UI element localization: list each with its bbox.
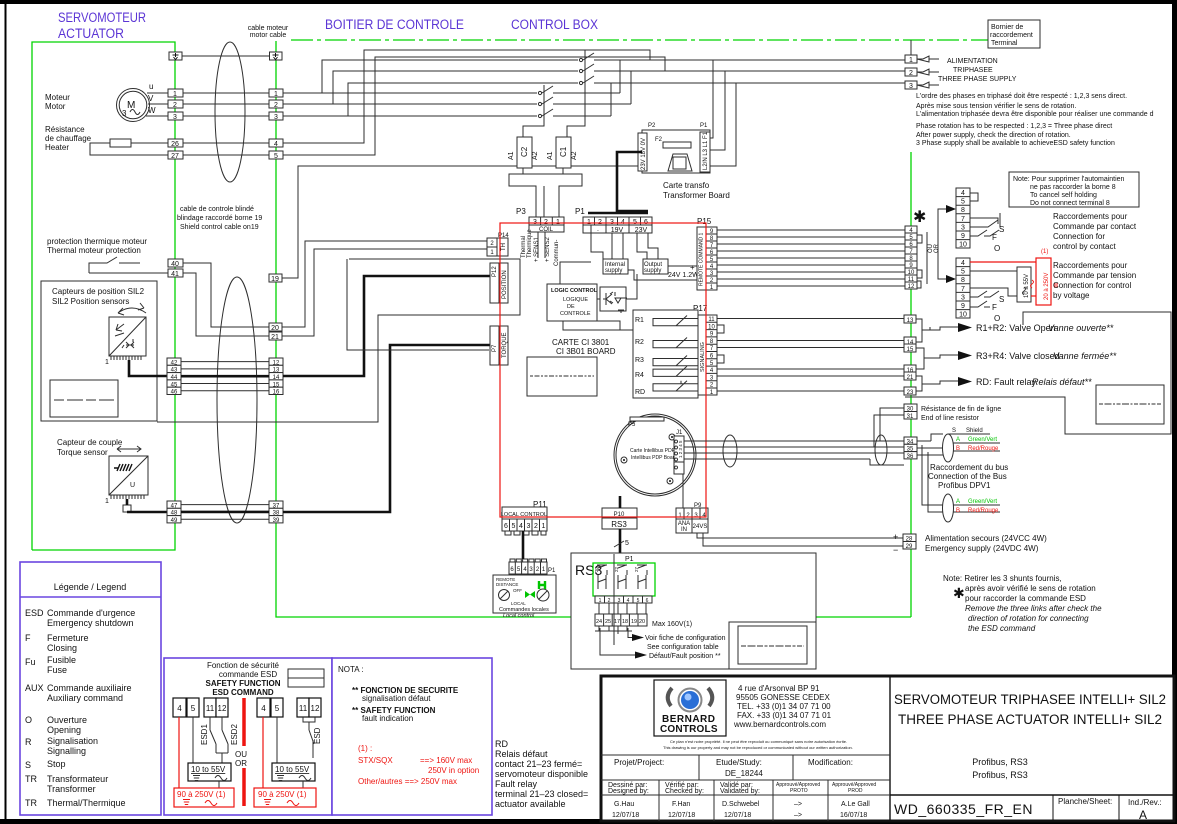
svg-text:1: 1	[274, 91, 278, 98]
svg-text:23V 18V 0V: 23V 18V 0V	[641, 138, 647, 170]
svg-text:Shield control cable on19: Shield control cable on19	[180, 224, 259, 231]
terminal bracket 13-14	[916, 319, 922, 342]
svg-text:Motor: Motor	[45, 102, 66, 111]
fault common wire	[613, 554, 615, 645]
svg-text:21: 21	[271, 334, 279, 341]
svg-text:26: 26	[171, 141, 179, 148]
svg-text:motor cable: motor cable	[250, 32, 287, 39]
internal supply	[603, 259, 628, 274]
svg-text:STX/SQX: STX/SQX	[358, 756, 393, 765]
svg-text:R3: R3	[635, 357, 644, 364]
svg-text:LOGIC CONTROL: LOGIC CONTROL	[551, 288, 598, 294]
terminals 34-36	[904, 437, 917, 444]
wire relays feed	[597, 321, 633, 330]
variant 1 wire 5	[192, 717, 194, 763]
svg-text:5: 5	[512, 523, 516, 530]
svg-text:A: A	[956, 499, 960, 505]
svg-text:22: 22	[614, 566, 619, 572]
terminal 16	[904, 365, 916, 373]
svg-text:41: 41	[171, 271, 179, 278]
svg-text:Transformer: Transformer	[47, 784, 96, 794]
wire torque thick to P7	[283, 345, 490, 512]
svg-text:13: 13	[907, 318, 914, 324]
svg-text:11: 11	[299, 704, 308, 713]
control box dash-dot boundary	[291, 39, 988, 41]
svg-text:2: 2	[909, 70, 913, 77]
opto coupler	[600, 287, 627, 313]
svg-text:Designed by:: Designed by:	[608, 788, 649, 795]
OU OR divider red	[242, 698, 246, 746]
svg-text:2: 2	[534, 523, 538, 530]
wire phase3 to C1 pole	[348, 115, 537, 117]
terminal strip column 1 motor	[168, 89, 183, 160]
position sensor block	[105, 317, 146, 366]
terminal 41	[168, 269, 183, 277]
svg-text:.: .	[597, 226, 599, 233]
terminals 47-49	[167, 501, 181, 524]
wire motor W	[146, 115, 168, 117]
svg-text:après avoir vérifié le sens de: après avoir vérifié le sens de rotation	[965, 584, 1096, 593]
project table	[601, 755, 890, 780]
svg-text:Heater: Heater	[45, 143, 69, 152]
svg-text:P15: P15	[697, 217, 712, 226]
svg-text:Thermal moteur protection: Thermal moteur protection	[47, 246, 141, 255]
svg-text:LOGIQUE: LOGIQUE	[563, 297, 588, 303]
svg-text:P1: P1	[700, 123, 708, 129]
svg-text:Fonction de sécurité: Fonction de sécurité	[207, 661, 280, 670]
svg-text:Résistance de fin de ligne: Résistance de fin de ligne	[921, 406, 1001, 413]
svg-text:+: +	[690, 263, 695, 272]
svg-text:1: 1	[542, 523, 546, 530]
variant 1 supply box	[188, 763, 231, 781]
green vertical at terminal strip	[910, 152, 912, 617]
shield terminal right	[270, 52, 283, 60]
svg-text:(1): (1)	[1041, 249, 1048, 255]
OU OR bracket	[926, 232, 928, 284]
svg-text:Intellibus PDP Board: Intellibus PDP Board	[631, 455, 677, 461]
svg-text:29: 29	[906, 544, 913, 550]
svg-text:Opening: Opening	[47, 725, 81, 735]
connector P9	[676, 503, 708, 533]
terminal 15	[904, 344, 916, 352]
svg-text:RD: RD	[495, 739, 508, 749]
svg-text:Stop: Stop	[47, 759, 66, 769]
connector P7 TORQUE	[490, 326, 508, 365]
svg-text:20: 20	[271, 325, 279, 332]
contact command block	[956, 188, 1004, 253]
svg-text:Note: Pour supprimer l'automai: Note: Pour supprimer l'automaintien	[1013, 176, 1125, 183]
svg-text:L'ordre des phases en triphasé: L'ordre des phases en triphasé doit être…	[916, 93, 1127, 100]
svg-text:commande ESD: commande ESD	[219, 670, 277, 679]
svg-text:TH: TH	[501, 243, 507, 251]
terminal 13	[904, 315, 916, 323]
wire sensor common to P7	[347, 259, 489, 350]
svg-text:Commande par contact: Commande par contact	[1053, 222, 1137, 231]
svg-text:27: 27	[634, 566, 639, 572]
svg-text:2: 2	[173, 102, 177, 109]
RS3 relays	[594, 565, 647, 589]
svg-text:Projet/Project:: Projet/Project:	[614, 758, 664, 767]
svg-text:3: 3	[961, 224, 965, 231]
dashed note box	[1096, 385, 1164, 424]
svg-text:Connection for: Connection for	[1053, 232, 1105, 241]
svg-text:24V 1.2W: 24V 1.2W	[668, 272, 699, 279]
svg-text:39: 39	[273, 518, 280, 524]
svg-text:(1) :: (1) :	[358, 744, 372, 753]
shield group 2	[922, 445, 1000, 522]
wire shield link	[182, 55, 270, 57]
svg-text:Green/Vert: Green/Vert	[968, 499, 997, 505]
terminal 40	[168, 259, 183, 267]
svg-text:A.Le Gall: A.Le Gall	[841, 801, 870, 808]
svg-text:Emergency shutdown: Emergency shutdown	[47, 618, 134, 628]
svg-text:12: 12	[908, 284, 915, 290]
svg-text:THREE PHASE ACTUATOR INTELL: THREE PHASE ACTUATOR INTELLI+ SIL2	[898, 712, 1162, 727]
svg-text:ALIMENTATION: ALIMENTATION	[947, 58, 998, 65]
svg-text:cable de controle blindé: cable de controle blindé	[180, 206, 254, 213]
svg-text:20 à 250V: 20 à 250V	[1044, 273, 1050, 300]
thermal switch	[89, 257, 140, 273]
variant 2 red wires	[262, 717, 264, 788]
svg-text:P5: P5	[628, 422, 636, 428]
RS3 wires pins to terminals	[599, 603, 646, 634]
wire heater	[90, 143, 168, 155]
svg-text:11: 11	[708, 317, 715, 323]
svg-text:W: W	[148, 106, 156, 115]
svg-text:ESD: ESD	[313, 727, 322, 744]
svg-text:9: 9	[961, 233, 965, 240]
svg-text:actuator available: actuator available	[495, 799, 566, 809]
svg-text:SERVOMOTEUR: SERVOMOTEUR	[58, 10, 146, 25]
logic control block	[547, 284, 598, 321]
voltage red wire	[970, 261, 1036, 263]
sensor output wire thick	[129, 360, 168, 376]
wire to C1 coil	[567, 50, 585, 137]
coil return wires	[509, 168, 536, 217]
svg-text:Do not connect terminal 8: Do not connect terminal 8	[1030, 200, 1110, 207]
svg-text:R4: R4	[635, 372, 644, 379]
wire 20 to P14	[282, 241, 487, 327]
svg-text:27: 27	[171, 153, 179, 160]
svg-text:−: −	[893, 545, 898, 555]
svg-text:3 Phase supply shall be availa: 3 Phase supply shall be available to ach…	[916, 140, 1115, 147]
svg-text:12/07/18: 12/07/18	[612, 812, 639, 819]
svg-text:25: 25	[605, 619, 611, 625]
svg-text:4: 4	[961, 260, 965, 267]
svg-text:SERVOMOTEUR TRIPHASEE INTELL: SERVOMOTEUR TRIPHASEE INTELLI+ SIL2	[894, 692, 1166, 707]
phase crossover wires	[610, 83, 612, 116]
svg-text:THREE PHASE SUPPLY: THREE PHASE SUPPLY	[938, 76, 1017, 83]
svg-text:Raccordements pour: Raccordements pour	[1053, 212, 1128, 221]
svg-text:contact 21–23 fermé=: contact 21–23 fermé=	[495, 759, 582, 769]
svg-text:Connection for control: Connection for control	[1053, 281, 1131, 290]
svg-text:4: 4	[177, 704, 182, 713]
emergency supply wires	[697, 533, 903, 538]
connector P15	[697, 217, 717, 291]
svg-text:Résistance: Résistance	[45, 125, 85, 134]
svg-text:Capteurs de position SIL2: Capteurs de position SIL2	[52, 287, 145, 296]
svg-text:10 à 55V: 10 à 55V	[1024, 274, 1030, 298]
svg-text:Profibus DPV1: Profibus DPV1	[938, 481, 991, 490]
svg-text:Emergency supply (24VDC 4W): Emergency supply (24VDC 4W)	[925, 544, 1039, 553]
terminal 19	[269, 274, 282, 282]
svg-text:S: S	[999, 225, 1004, 234]
svg-text:49: 49	[171, 518, 178, 524]
supply arrows	[917, 56, 939, 62]
svg-text:5: 5	[274, 153, 278, 160]
svg-text:11: 11	[908, 277, 915, 283]
svg-text:Red/Rouge: Red/Rouge	[968, 446, 999, 452]
svg-text:This drawing is our property a: This drawing is our property and may not…	[663, 745, 853, 750]
shunt note	[943, 574, 1102, 633]
svg-text:P1: P1	[625, 556, 634, 563]
terminal 14	[904, 337, 916, 345]
svg-text:signalisation défaut: signalisation défaut	[362, 694, 431, 703]
wire motor U	[147, 92, 168, 94]
svg-text:REMOTE COMMAND 1: REMOTE COMMAND 1	[699, 232, 705, 286]
RS3 outer box	[571, 553, 816, 669]
svg-text:CONTROL BOX: CONTROL BOX	[511, 17, 598, 32]
svg-text:TEL. +33 (0)1 34 07 71 00: TEL. +33 (0)1 34 07 71 00	[737, 702, 831, 711]
spare box	[50, 380, 118, 417]
wires heater cable	[183, 142, 269, 144]
terminal 1 supply	[905, 55, 917, 63]
wires 30 31	[880, 408, 904, 441]
svg-text:SIGNALING: SIGNALING	[700, 342, 706, 372]
terminal bracket 21-23	[916, 376, 922, 391]
svg-text:1: 1	[105, 498, 109, 505]
svg-text:D.Schwebel: D.Schwebel	[722, 801, 760, 808]
RD annotation	[922, 377, 1092, 387]
wires torque cable	[181, 504, 269, 506]
wire phase2 to C1 pole	[333, 103, 537, 105]
svg-text:Relais défaut**: Relais défaut**	[1032, 377, 1092, 387]
wire heater supply 5	[283, 57, 665, 155]
svg-text:7: 7	[961, 216, 965, 223]
svg-text:Fu: Fu	[25, 657, 36, 667]
svg-text:G.Hau: G.Hau	[614, 801, 634, 808]
svg-text:==> 160V max: ==> 160V max	[420, 756, 472, 765]
svg-text:P3: P3	[516, 207, 526, 216]
svg-text:10: 10	[959, 312, 967, 319]
svg-text:Max 160V(1): Max 160V(1)	[652, 621, 692, 628]
wire logic to opto	[597, 298, 600, 300]
contactor C2	[508, 137, 539, 168]
svg-text:10: 10	[908, 270, 915, 276]
svg-text:pour raccorder la commande ESD: pour raccorder la commande ESD	[965, 594, 1086, 603]
variant 2 wire 5	[276, 717, 278, 763]
svg-text:1 2 3 4 5: 1 2 3 4 5	[678, 440, 683, 458]
wire P11 to local	[522, 531, 525, 559]
svg-text:4: 4	[519, 523, 523, 530]
svg-text:10: 10	[959, 242, 967, 249]
svg-text:Commun-: Commun-	[554, 240, 560, 266]
svg-text:End of line resistor: End of line resistor	[921, 415, 980, 422]
svg-text:A: A	[1139, 808, 1147, 822]
svg-text:Vanne ouverte**: Vanne ouverte**	[1048, 323, 1114, 333]
heater resistor	[110, 139, 131, 147]
svg-text:24VS: 24VS	[693, 524, 708, 530]
arc arrow	[118, 303, 146, 315]
RS3 pin row	[595, 596, 652, 604]
svg-text:RD: Fault relay: RD: Fault relay	[976, 377, 1037, 387]
svg-text:RD: RD	[635, 389, 645, 396]
svg-text:Fuse: Fuse	[47, 665, 67, 675]
svg-text:36: 36	[907, 454, 914, 460]
svg-text:Commande par tension: Commande par tension	[1053, 271, 1136, 280]
terminal 21b	[904, 372, 916, 380]
connector P11	[501, 500, 547, 535]
svg-text:Signalling: Signalling	[47, 746, 86, 756]
svg-text:POSITION: POSITION	[502, 270, 508, 299]
wire P5 to P10	[619, 496, 622, 508]
SECTION: top power wiring	[283, 20, 1154, 217]
svg-text:4: 4	[261, 704, 266, 713]
svg-text:2: 2	[274, 102, 278, 109]
svg-text:L2/N L3 L1 F1: L2/N L3 L1 F1	[703, 131, 709, 170]
svg-text:18: 18	[622, 619, 628, 625]
svg-text:Fault relay: Fault relay	[495, 779, 538, 789]
svg-text:BOITIER DE CONTROLE: BOITIER DE CONTROLE	[325, 17, 464, 32]
svg-text:31: 31	[907, 414, 914, 420]
svg-text:NOTA :: NOTA :	[338, 665, 364, 674]
svg-text:CI 3B01 BOARD: CI 3B01 BOARD	[556, 347, 616, 356]
terminal strip column 2 motor	[269, 89, 283, 160]
svg-text:46: 46	[171, 390, 178, 396]
svg-text:DE: DE	[567, 304, 575, 310]
svg-text:ESD COMMAND: ESD COMMAND	[212, 688, 274, 697]
svg-text:Local control: Local control	[503, 613, 535, 619]
svg-text:After power supply, check the: After power supply, check the direction …	[916, 132, 1071, 139]
terminals 37-39	[269, 501, 283, 524]
svg-text:8: 8	[961, 277, 965, 284]
motor M1	[117, 89, 150, 122]
svg-text:+ SENS2: + SENS2	[545, 236, 551, 262]
svg-text:ESD: ESD	[25, 608, 44, 618]
connector P14	[487, 233, 509, 256]
svg-text:CARTE CI 3801: CARTE CI 3801	[552, 338, 610, 347]
bus cable ellipse 2	[875, 435, 887, 465]
terminals 4-12	[905, 226, 917, 290]
svg-text:Signalisation: Signalisation	[47, 736, 98, 746]
svg-text:O: O	[25, 715, 32, 725]
svg-text:DISTANCE: DISTANCE	[496, 582, 518, 587]
svg-text:✱: ✱	[953, 585, 965, 601]
svg-text:Validated by:: Validated by:	[720, 788, 760, 795]
10 a 55V box	[1017, 267, 1031, 302]
SECTION: control board	[487, 207, 940, 535]
svg-text:Note: Retirer les 3 shunts fou: Note: Retirer les 3 shunts fournis,	[943, 574, 1062, 583]
svg-text:de chauffage: de chauffage	[45, 134, 92, 143]
motor cable ellipse	[215, 42, 245, 182]
P17 jumper tabs	[717, 325, 724, 363]
svg-text:P12: P12	[492, 266, 498, 277]
svg-text:Profibus, RS3: Profibus, RS3	[972, 757, 1028, 767]
control cable ellipse	[217, 277, 257, 523]
svg-text:S: S	[999, 295, 1004, 304]
svg-text:Checked by:: Checked by:	[665, 788, 704, 795]
svg-text:4: 4	[274, 141, 278, 148]
wires position cable	[181, 361, 269, 363]
bornier terminal label box	[988, 20, 1040, 48]
actuator enclosure green box	[32, 42, 175, 550]
P3 sensor wires	[538, 232, 545, 258]
svg-text:Ce plan n'est notre propriété.: Ce plan n'est notre propriété. Il ne peu…	[670, 739, 847, 744]
board note box	[527, 357, 597, 396]
shield group 1	[917, 428, 1000, 462]
svg-text:4: 4	[961, 190, 965, 197]
svg-text:RS3: RS3	[611, 520, 627, 529]
svg-text:Raccordements pour: Raccordements pour	[1053, 261, 1128, 270]
wire motor V	[148, 103, 168, 105]
svg-text:Connection of the Bus: Connection of the Bus	[928, 472, 1007, 481]
RS3 terminal row	[595, 614, 647, 626]
svg-text:IN: IN	[681, 527, 687, 533]
variant 2 terminals	[257, 698, 321, 717]
svg-text:Shield: Shield	[966, 428, 983, 434]
svg-text:3: 3	[173, 114, 177, 121]
svg-text:S: S	[952, 428, 956, 434]
svg-text:9: 9	[961, 303, 965, 310]
svg-text:supply: supply	[605, 268, 622, 274]
terminals 12-16	[269, 358, 283, 396]
svg-text:TR: TR	[25, 774, 37, 784]
note box self holding	[1009, 172, 1139, 207]
wire phase2 riser	[283, 71, 578, 104]
svg-text:the ESD command: the ESD command	[968, 624, 1036, 633]
svg-text:23: 23	[907, 390, 914, 396]
svg-text:C2: C2	[520, 146, 529, 157]
svg-text:7: 7	[961, 286, 965, 293]
terminals 42-46	[167, 358, 181, 396]
svg-text:protection thermique moteur: protection thermique moteur	[47, 237, 147, 246]
bus cable ellipse 1	[723, 435, 737, 467]
svg-text:19V: 19V	[611, 227, 624, 234]
P17 output wires	[717, 319, 905, 392]
svg-text:To cancel self holding: To cancel self holding	[1030, 192, 1097, 199]
torque output wire	[123, 505, 131, 512]
svg-text:Légende / Legend: Légende / Legend	[54, 582, 127, 592]
SIL2 sensors enclosure	[41, 281, 157, 421]
svg-text:OU: OU	[235, 750, 247, 759]
svg-text:Capteur de couple: Capteur de couple	[57, 438, 123, 447]
SECTION: bottom middle RS3	[493, 529, 816, 669]
wire 40 to 20	[183, 263, 269, 327]
svg-text:3: 3	[909, 83, 913, 90]
svg-text:blindage raccordé borne 19: blindage raccordé borne 19	[177, 215, 262, 222]
svg-text:ne pas raccorder la borne 8: ne pas raccorder la borne 8	[1030, 184, 1116, 191]
svg-text:O: O	[994, 244, 1000, 253]
svg-text:P2: P2	[648, 123, 656, 129]
svg-text:–>: –>	[794, 812, 802, 819]
terminal 2 supply	[905, 68, 917, 76]
connector J1	[674, 430, 684, 474]
svg-text:cable moteur: cable moteur	[248, 25, 289, 32]
svg-text:M: M	[127, 100, 135, 111]
config table box	[729, 622, 816, 669]
wire 21 to P14	[282, 249, 487, 336]
svg-text:DE_18244: DE_18244	[725, 769, 763, 778]
svg-text:B: B	[956, 508, 960, 514]
connector P1 board	[575, 207, 652, 234]
svg-text:A1: A1	[508, 151, 515, 160]
torque sensor block	[105, 456, 148, 505]
SECTION: legend	[20, 562, 161, 815]
svg-text:Commande d'urgence: Commande d'urgence	[47, 608, 135, 618]
shield terminal left	[169, 52, 182, 60]
SECTION: green boundaries	[32, 40, 988, 617]
svg-text:Ind./Rev.:: Ind./Rev.:	[1128, 798, 1162, 807]
